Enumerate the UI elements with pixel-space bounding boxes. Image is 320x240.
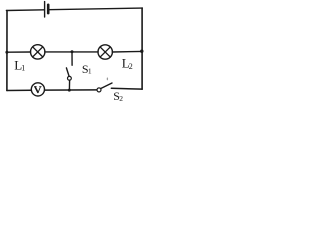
- svg-text:2: 2: [119, 94, 123, 103]
- svg-text:2: 2: [129, 62, 133, 71]
- svg-text:1: 1: [88, 66, 92, 75]
- svg-text:1: 1: [21, 64, 25, 73]
